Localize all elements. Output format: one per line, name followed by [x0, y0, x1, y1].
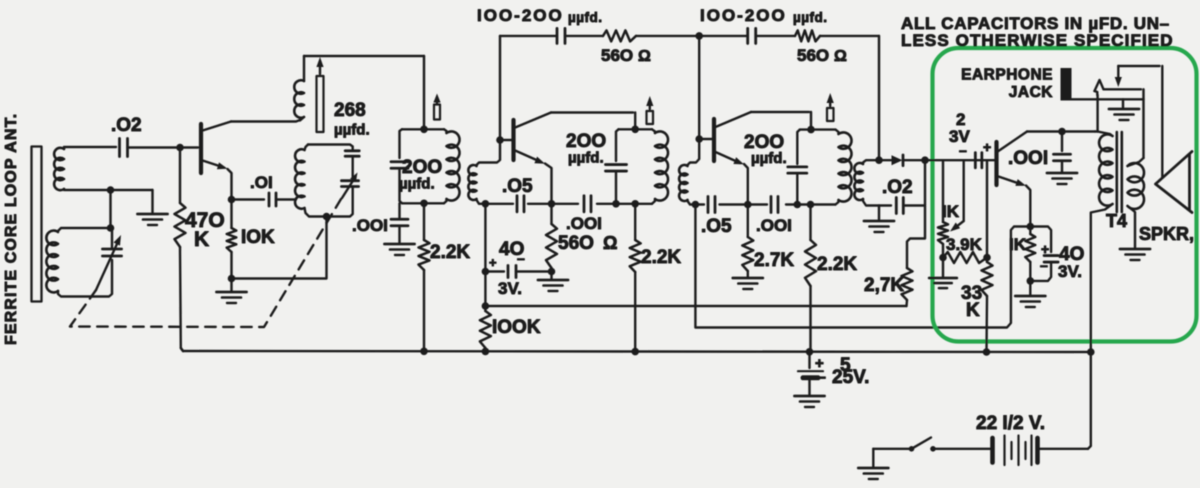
- node T2 bottom: [631, 200, 639, 208]
- node antenna tap junction: [107, 186, 115, 194]
- node Q3 emitter rail: [744, 201, 752, 209]
- transformer T2 top edge: [619, 128, 653, 130]
- svg-text:56O: 56O: [601, 46, 633, 65]
- capacitor C11cap 200uufd: [788, 130, 807, 205]
- transformer T4 core: [1117, 132, 1122, 212]
- svg-text:56O: 56O: [797, 46, 829, 65]
- ground C17: [795, 396, 825, 407]
- label .001 stage3: [756, 216, 792, 235]
- svg-text:SPKR,: SPKR,: [1139, 224, 1194, 244]
- svg-text:Ω: Ω: [834, 48, 847, 65]
- wire Q4 collector: [1027, 130, 1095, 132]
- label note line2: [901, 31, 1174, 50]
- label 2.2K stage3: [817, 254, 857, 275]
- resistor R5 560: [546, 204, 557, 272]
- arrow jack plug: [1115, 66, 1122, 87]
- label .001 stage2: [566, 214, 602, 233]
- wire switch to ground: [873, 449, 909, 467]
- wire rail down to Q3 base: [698, 36, 700, 139]
- transformer T3 top edge: [800, 128, 836, 130]
- label 100-200uufd 1: [477, 6, 603, 25]
- svg-text:FERRITE CORE LOOP ANT.: FERRITE CORE LOOP ANT.: [3, 113, 20, 345]
- svg-text:2,7K: 2,7K: [864, 275, 904, 296]
- capacitor C13 .02: [896, 198, 925, 214]
- svg-text:22 I/2 V.: 22 I/2 V.: [976, 413, 1045, 434]
- resistor R7 2.2K: [630, 204, 641, 352]
- svg-text:Ω: Ω: [603, 233, 617, 253]
- svg-text:25V.: 25V.: [832, 367, 869, 388]
- resistor R1 470K: [175, 148, 186, 352]
- svg-text:µµfd.: µµfd.: [568, 10, 603, 25]
- wire tap to tank: [109, 190, 111, 228]
- label 5 25V: [815, 355, 869, 388]
- svg-text:2.7K: 2.7K: [754, 250, 794, 271]
- node R15 bottom: [1027, 277, 1035, 285]
- transistor Q3: [714, 112, 751, 203]
- node R2 bottom: [228, 275, 236, 283]
- svg-text:K: K: [966, 300, 980, 321]
- ground antenna tap: [138, 190, 168, 225]
- svg-text:+: +: [1041, 241, 1049, 257]
- svg-text:EARPHONE: EARPHONE: [961, 67, 1053, 84]
- capacitor C15 .001: [1054, 132, 1071, 173]
- ground det: [864, 206, 894, 233]
- label .001 stage1: [352, 216, 388, 235]
- label T4: [1106, 211, 1127, 231]
- capacitor C2 .01: [232, 193, 297, 206]
- label 40 3V audio: [1040, 241, 1084, 281]
- svg-text:µµfd.: µµfd.: [751, 150, 787, 167]
- label .02: [111, 115, 142, 136]
- svg-text:.O2: .O2: [111, 115, 142, 136]
- capacitor C3 200uufd: [391, 129, 408, 203]
- wire det out: [925, 159, 996, 161]
- svg-text:Ω: Ω: [638, 48, 651, 65]
- coil L1 antenna primary: [54, 147, 152, 190]
- capacitor C8 40uf 3V: [485, 266, 551, 278]
- potentiometer R12 1K volume: [938, 160, 964, 257]
- wire Q3 collector: [751, 112, 811, 128]
- capacitor C10 100-200uufd: [748, 28, 756, 43]
- svg-text:268: 268: [334, 100, 366, 121]
- svg-text:+: +: [489, 255, 497, 270]
- resistor R11 2.7K det: [902, 268, 913, 306]
- svg-text:.OOI: .OOI: [1008, 148, 1048, 169]
- wire base: [180, 146, 198, 148]
- svg-text:IOOK: IOOK: [492, 317, 541, 338]
- capacitor C9 200uufd: [606, 129, 627, 204]
- label .02 det: [882, 177, 913, 198]
- svg-text:2.2K: 2.2K: [641, 247, 681, 268]
- slug T3 core adjust: [827, 93, 834, 121]
- wire bottom bus C: [181, 348, 1091, 352]
- resistor R6 100K: [480, 306, 491, 352]
- label 2.2K stage1: [430, 242, 470, 263]
- coil L2 antenna secondary: [46, 228, 112, 297]
- label .001 audio: [1008, 148, 1048, 169]
- node bus 2.2K-1: [420, 348, 428, 356]
- wire jack sleeve to ground: [1072, 99, 1144, 108]
- jack spring contact: [1095, 80, 1104, 95]
- transformer T4 secondary: [1128, 158, 1145, 248]
- label 560ohm 2: [558, 233, 617, 254]
- wire B line reflex: [695, 205, 1029, 328]
- wire stage2 emitter rail: [482, 203, 619, 205]
- svg-text:IK: IK: [1009, 235, 1027, 254]
- svg-text:3V.: 3V.: [1058, 262, 1082, 281]
- node Q1 emitter: [228, 196, 236, 204]
- svg-text:–: –: [517, 250, 525, 266]
- node Q2 base: [496, 136, 504, 144]
- node divider: [983, 254, 991, 262]
- resistor R14 33K: [982, 258, 993, 353]
- node T2 top: [631, 126, 639, 134]
- ground switch: [858, 468, 888, 479]
- arrow VC1 adjust: [96, 235, 121, 290]
- node bus battery: [806, 348, 814, 356]
- svg-text:–: –: [1040, 257, 1048, 273]
- label 560ohm 3: [797, 46, 847, 65]
- ground jack: [1109, 109, 1139, 120]
- svg-text:+: +: [983, 139, 991, 155]
- label 470K: [185, 209, 225, 251]
- wire T1 bottom edge: [402, 202, 444, 204]
- wire AGC line A: [485, 305, 906, 307]
- label 268 uufd: [334, 100, 370, 139]
- node rail3 left: [692, 201, 700, 209]
- svg-text:.O2: .O2: [882, 177, 913, 198]
- node det out corner: [921, 156, 929, 164]
- ground speaker: [1120, 249, 1150, 260]
- earphone jack J1 body: [1061, 68, 1072, 101]
- node Q1 base: [176, 144, 184, 152]
- node rail2 left: [482, 200, 490, 208]
- node bus right end: [1087, 348, 1095, 356]
- ground C4: [385, 244, 415, 255]
- resistor R15 1K emitter: [1025, 227, 1035, 281]
- label note line1: [901, 14, 1170, 33]
- ground R9: [733, 278, 763, 289]
- label 2 3V: [949, 110, 991, 158]
- wire det box right: [907, 160, 925, 268]
- variable capacitor VC1 tuning: [103, 228, 122, 256]
- svg-text:LESS OTHERWISE SPECIFIED: LESS OTHERWISE SPECIFIED: [901, 31, 1174, 50]
- capacitor C6 .05: [517, 196, 524, 212]
- coil L3 oscillator feedback: [294, 56, 304, 121]
- node C15 top: [1058, 128, 1066, 136]
- ground R2: [217, 279, 247, 304]
- label 2,7K det: [864, 275, 904, 296]
- label 2.2K stage2: [641, 247, 681, 268]
- wire Q2 collector: [551, 113, 635, 129]
- wire T2 bottom edge: [619, 203, 653, 205]
- label 560ohm 1: [601, 46, 651, 65]
- transformer T4det secondary coil: [854, 160, 891, 205]
- coil L4 oscillator tank: [295, 145, 323, 217]
- ground R5: [538, 272, 568, 292]
- svg-text:IOO-2OO: IOO-2OO: [477, 6, 564, 25]
- svg-text:56O: 56O: [558, 233, 594, 254]
- capacitor fixed 268uufd: [308, 145, 359, 157]
- label .05 stage3: [701, 216, 732, 237]
- svg-text:2.2K: 2.2K: [430, 242, 470, 263]
- svg-text:–: –: [817, 369, 826, 386]
- wire Q1 collector to osc coil: [231, 120, 300, 122]
- wire rail down to T1: [423, 56, 425, 129]
- svg-text:.O5: .O5: [502, 176, 533, 197]
- capacitor C17 5uf 25V: [798, 352, 823, 395]
- wire down to AGC: [484, 272, 486, 307]
- ferrite core bar: [32, 147, 42, 302]
- node T3 top: [807, 126, 815, 134]
- node tank top junction: [107, 224, 115, 232]
- label 40 3V stage2: [489, 239, 525, 298]
- label 1K volume: [942, 202, 960, 221]
- ground C15: [1047, 173, 1077, 184]
- node T1 top: [420, 126, 428, 134]
- node bus 33K: [983, 348, 991, 356]
- node Q2 emitter rail: [548, 200, 556, 208]
- capacitor C1 .02: [120, 139, 128, 157]
- resistor R9 2.7K: [742, 205, 753, 278]
- wire T3 bottom edge: [800, 203, 836, 205]
- label 200 uufd T3: [744, 132, 787, 167]
- wire rail1 down to Q2 base: [499, 36, 501, 140]
- diode D1 detector: [879, 155, 925, 166]
- svg-text:µµfd.: µµfd.: [334, 122, 370, 139]
- slug L3 core adjust: [316, 57, 323, 132]
- label 100-200uufd 2: [700, 6, 828, 25]
- node T3 cap bottom: [794, 201, 802, 209]
- svg-text:µµfd.: µµfd.: [399, 176, 435, 193]
- node AGC left: [482, 302, 490, 310]
- resistor R8 560: [795, 30, 820, 41]
- capacitor C5 100-200uufd: [557, 28, 565, 43]
- svg-text:3.9K: 3.9K: [946, 235, 983, 254]
- resistor R13 3.9K: [943, 252, 987, 263]
- ground pot: [929, 258, 957, 289]
- wire gang dashed link: [70, 199, 341, 327]
- battery BT1 22.5V: [934, 352, 1091, 465]
- label 3.9K: [946, 235, 983, 254]
- label 2.7K stage3: [754, 250, 794, 271]
- speaker SPKR cone: [1156, 152, 1193, 213]
- label 200 uufd T1: [399, 157, 442, 193]
- coil T2 primary: [652, 129, 668, 204]
- node Q4 emitter: [1027, 223, 1035, 231]
- node bus 2.2K-2: [631, 348, 639, 356]
- node T1 bottom: [420, 200, 428, 208]
- wire tank bottom right: [327, 188, 353, 217]
- wire rail2 down to det: [878, 36, 880, 160]
- node C8 left: [482, 268, 490, 276]
- label 100K: [492, 317, 541, 338]
- wire jack tip contact: [1104, 89, 1144, 158]
- resistor R10 2.2K: [805, 205, 816, 353]
- svg-text:µµfd.: µµfd.: [568, 150, 604, 167]
- capacitor C16 40uf 3V: [1030, 227, 1058, 281]
- label SPKR: [1139, 224, 1194, 244]
- svg-text:µµfd.: µµfd.: [793, 10, 828, 25]
- svg-text:JACK: JACK: [1009, 84, 1054, 101]
- ground R15: [1015, 281, 1045, 307]
- node det top: [875, 156, 883, 164]
- wire speaker feed top: [1118, 66, 1162, 178]
- label 200 uufd T2: [566, 131, 606, 167]
- slug T2 core adjust: [646, 96, 653, 124]
- highlight green box: [933, 48, 1197, 342]
- node T3 bottom: [807, 201, 815, 209]
- transformer T4 primary: [1091, 95, 1113, 352]
- svg-text:T4: T4: [1106, 211, 1127, 231]
- node bus 100K: [482, 348, 490, 356]
- label FERRITE CORE LOOP ANT.: [3, 113, 20, 345]
- label .05 stage2: [502, 176, 533, 197]
- svg-text:.OOI: .OOI: [352, 216, 388, 235]
- switch S1: [909, 438, 936, 452]
- resistor R4 560: [603, 30, 636, 41]
- wire Q3 base: [699, 138, 712, 140]
- node pot bottom: [939, 254, 947, 262]
- wire top rail 2: [699, 35, 879, 37]
- transistor Q1: [201, 122, 232, 199]
- resistor R3 2.2K: [419, 203, 430, 352]
- capacitor C12 .001: [771, 197, 778, 213]
- capacitor C7 .001: [584, 196, 591, 212]
- label 22 1/2 V: [976, 413, 1045, 434]
- wire R2 node to tank bottom: [232, 220, 327, 279]
- capacitor C14 2uf 3V: [975, 153, 982, 168]
- node tank bottom junction: [323, 213, 331, 221]
- svg-text:IOO-2OO: IOO-2OO: [700, 6, 787, 25]
- wire C1 to base Q1: [128, 146, 180, 148]
- svg-text:IOK: IOK: [241, 227, 275, 248]
- coil T2 secondary: [679, 141, 699, 205]
- svg-text:.OOI: .OOI: [756, 216, 792, 235]
- wire top rail 1: [500, 35, 699, 37]
- node R5 bottom: [548, 268, 556, 276]
- transistor Q4: [997, 132, 1031, 226]
- wire Q2 base: [500, 139, 512, 141]
- wire divider up: [986, 160, 988, 257]
- svg-text:.OOI: .OOI: [566, 214, 602, 233]
- coil T1 primary: [444, 129, 460, 203]
- label EARPHONE JACK: [961, 67, 1053, 102]
- capacitor C11 .05: [708, 197, 715, 213]
- svg-text:.OI: .OI: [250, 173, 273, 192]
- svg-text:–: –: [959, 142, 967, 158]
- variable capacitor VC2 268uufd trimmer: [342, 157, 359, 187]
- node rail junction mid: [695, 32, 703, 40]
- svg-text:K: K: [194, 228, 209, 251]
- node T2 cap bottom: [612, 200, 620, 208]
- slug T1 core adjust: [433, 94, 440, 120]
- label .01: [250, 173, 273, 192]
- svg-text:IK: IK: [942, 202, 960, 221]
- svg-text:2.2K: 2.2K: [817, 254, 857, 275]
- wire osc top rail: [304, 55, 424, 57]
- transformer T1 primary box top: [402, 128, 444, 130]
- wire stage3 emitter rail: [693, 203, 800, 205]
- coil T1 secondary: [468, 142, 500, 204]
- wire bypass branch: [484, 204, 486, 272]
- transistor Q2: [514, 113, 552, 203]
- label 10K: [241, 227, 275, 248]
- label 33K: [961, 283, 982, 321]
- coil T3 primary: [836, 130, 852, 205]
- label 1K emitter: [1009, 235, 1027, 254]
- resistor R2 10K: [227, 200, 237, 279]
- arrow VC2 adjust: [342, 173, 358, 199]
- capacitor C4 .001: [391, 203, 408, 243]
- node Q3 base: [695, 135, 703, 143]
- svg-text:.O5: .O5: [701, 216, 732, 237]
- svg-text:3V.: 3V.: [498, 279, 522, 298]
